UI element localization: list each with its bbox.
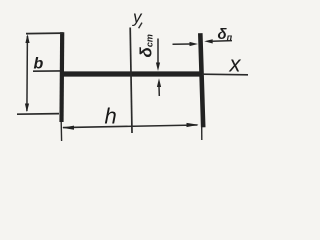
svg-text:h: h (105, 104, 117, 129)
svg-text:x: x (229, 52, 242, 77)
dimension h: left extension line (60, 122, 62, 141)
x-axis left stub (33, 70, 60, 72)
dimension b: bottom extension tick (17, 113, 59, 116)
paper background (0, 0, 252, 157)
dimension delta_st: lower arrowhead (points up to web) (157, 78, 161, 87)
dimension h: right extension line (201, 127, 203, 140)
dimension b: lower arrowhead (25, 104, 29, 113)
dimension b: top extension tick (26, 32, 63, 35)
dimension delta_p: left arrowhead (points right at flange) (190, 42, 199, 46)
dimension b: upper arrowhead (25, 34, 29, 43)
stray pen mark (139, 23, 142, 29)
x-axis right stub (202, 73, 248, 76)
dimension delta_p: right arrowhead (points left at flange) (204, 39, 213, 43)
dimension delta_st: lower arrow shaft (158, 87, 160, 97)
dimension h: dimension line (63, 125, 198, 128)
right flange (vertical bar of section) (200, 33, 203, 127)
dimension delta_p: right leader line (212, 40, 232, 43)
dimension delta_p: left arrow shaft (173, 43, 191, 45)
dimension delta_st: upper arrow shaft (157, 39, 159, 64)
dimension h: left arrowhead (62, 126, 74, 130)
svg-text:b: b (34, 56, 44, 73)
dimension h: right arrowhead (187, 123, 199, 127)
dimension b: vertical dimension line (26, 36, 29, 111)
dimension delta_st: upper arrowhead (points down to web) (156, 63, 160, 72)
web (horizontal bar of section) (62, 71, 201, 76)
left flange (vertical bar of section) (59, 32, 64, 122)
y-axis centerline (130, 28, 132, 134)
